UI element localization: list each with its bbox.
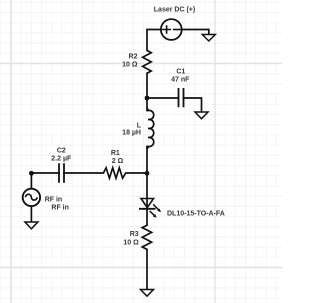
svg-text:RF in: RF in — [45, 197, 63, 204]
ground bottom — [141, 290, 154, 297]
capacitor C2 plates — [59, 163, 64, 183]
node junction at RF source top — [29, 171, 34, 176]
DC source plus sign — [162, 25, 171, 34]
wire: C2 right plate to R1 — [64, 172, 103, 174]
wire: junction to C1 left plate — [147, 97, 179, 99]
node junction at C1 tap — [145, 96, 150, 101]
wire: RF source bottom lead to ground — [30, 206, 32, 222]
svg-text:DL10-15-TO-A-FA: DL10-15-TO-A-FA — [167, 210, 225, 217]
grid major vertical line x=11 — [10, 0, 12, 303]
wire: DC source left lead to main rail corner — [147, 30, 161, 51]
wire: LED cathode to R3 — [146, 209, 148, 225]
wire: R2 bottom to C1 junction — [146, 73, 148, 98]
wire: R1 right to main rail junction — [126, 172, 147, 174]
grid major horizontal line y=267.5 — [0, 267, 282, 269]
svg-text:10 Ω: 10 Ω — [122, 62, 138, 69]
svg-text:Laser DC (+): Laser DC (+) — [154, 6, 195, 13]
ground under RF source — [25, 222, 38, 229]
svg-text:C2: C2 — [57, 148, 66, 155]
LED emission arrow 2 — [150, 211, 157, 218]
svg-text:2.2 µF: 2.2 µF — [51, 156, 72, 163]
resistor R1 — [103, 168, 125, 178]
svg-text:R3: R3 — [130, 231, 139, 238]
svg-text:R2: R2 — [129, 54, 138, 61]
svg-text:10 Ω: 10 Ω — [123, 240, 139, 247]
wire: junction down to inductor top — [146, 98, 148, 111]
inductor L coil — [147, 108, 154, 149]
wire: RF junction to C2 left plate — [31, 172, 59, 174]
wire: inductor bottom to RF junction — [146, 147, 148, 174]
DC source V1 circle — [161, 19, 182, 40]
svg-text:L: L — [137, 122, 142, 129]
resistor R3 — [142, 225, 151, 249]
grid major vertical line x=215 — [214, 0, 216, 303]
svg-text:C1: C1 — [176, 69, 185, 76]
svg-text:R1: R1 — [111, 150, 120, 157]
svg-text:18 µH: 18 µH — [122, 130, 141, 137]
wire: C1 right plate to ground — [184, 98, 202, 112]
AC source sine wave — [26, 194, 38, 200]
wire: R3 bottom to ground — [146, 249, 148, 289]
grid major horizontal line y=63.5 — [0, 63, 282, 65]
wire: RF source top lead — [30, 173, 32, 188]
node junction at RF branch — [145, 171, 150, 176]
LED emission arrow 1 — [153, 204, 161, 212]
LED D1 triangle — [141, 199, 154, 208]
DC source minus sign — [173, 29, 182, 31]
resistor R2 — [143, 50, 152, 73]
capacitor C1 plates — [179, 88, 184, 107]
wire: DC source right lead to ground corner — [182, 30, 209, 35]
AC source RF in circle — [23, 189, 40, 206]
wire: RF junction to LED anode — [146, 173, 148, 209]
svg-text:RF in: RF in — [51, 204, 69, 211]
LED D1 cathode bar — [139, 208, 156, 210]
ground top right — [202, 35, 215, 42]
svg-text:2 Ω: 2 Ω — [112, 158, 124, 165]
svg-text:47 nF: 47 nF — [171, 77, 190, 84]
ground right of C1 — [195, 112, 208, 119]
